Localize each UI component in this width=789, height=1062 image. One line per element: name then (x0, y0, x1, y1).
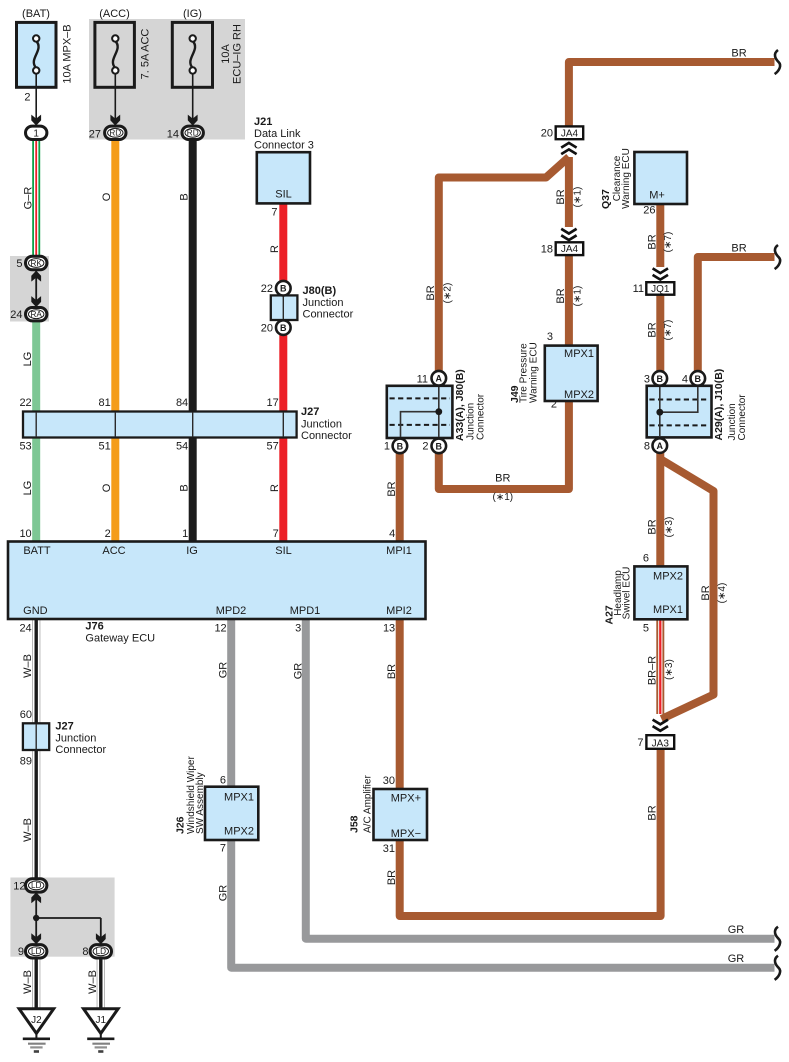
svg-text:JA4: JA4 (561, 244, 579, 255)
svg-text:B: B (657, 374, 664, 384)
svg-text:BR: BR (646, 322, 658, 337)
svg-text:26: 26 (643, 205, 655, 217)
svg-text:SW Assembly: SW Assembly (195, 772, 206, 834)
svg-text:LG: LG (22, 481, 34, 496)
svg-text:MPX−: MPX− (391, 828, 421, 840)
svg-text:24: 24 (10, 309, 22, 321)
svg-text:B: B (397, 441, 404, 451)
svg-text:12: 12 (214, 623, 226, 635)
svg-text:7: 7 (637, 737, 643, 749)
svg-text:BR: BR (646, 805, 658, 820)
svg-text:MPI1: MPI1 (386, 545, 412, 557)
svg-text:5: 5 (643, 623, 649, 635)
svg-text:BR: BR (425, 285, 437, 300)
svg-text:IG: IG (186, 545, 198, 557)
svg-text:W–B: W–B (22, 818, 34, 842)
svg-text:MPX1: MPX1 (224, 792, 254, 804)
svg-text:Connector: Connector (737, 394, 748, 441)
svg-text:Junction: Junction (55, 733, 96, 745)
svg-text:MPX2: MPX2 (224, 826, 254, 838)
svg-text:(∗4): (∗4) (717, 583, 728, 604)
svg-text:BR: BR (646, 519, 658, 534)
svg-text:57: 57 (267, 441, 279, 453)
svg-text:(∗2): (∗2) (443, 283, 454, 304)
svg-text:J58: J58 (349, 815, 361, 833)
svg-text:BR: BR (731, 243, 746, 255)
svg-text:3: 3 (644, 374, 650, 386)
svg-text:J80(B): J80(B) (303, 285, 337, 297)
svg-text:GND: GND (23, 605, 48, 617)
svg-text:GR: GR (218, 885, 230, 902)
svg-text:30: 30 (383, 775, 395, 787)
svg-text:BR: BR (646, 234, 658, 249)
svg-text:A: A (436, 374, 443, 384)
svg-text:BR: BR (700, 585, 712, 600)
svg-text:BR: BR (555, 288, 567, 303)
svg-text:11: 11 (417, 374, 428, 386)
svg-text:ECU–IG RH: ECU–IG RH (232, 24, 244, 84)
svg-text:9: 9 (18, 946, 24, 958)
svg-text:J27: J27 (301, 406, 319, 418)
svg-text:Gateway ECU: Gateway ECU (85, 633, 155, 645)
svg-text:GR: GR (728, 953, 745, 965)
svg-text:A33(A), J80(B): A33(A), J80(B) (454, 369, 466, 441)
svg-text:MPX1: MPX1 (564, 348, 594, 360)
svg-text:31: 31 (383, 843, 395, 855)
svg-text:A29(A), J10(B): A29(A), J10(B) (713, 369, 725, 441)
svg-text:7: 7 (220, 843, 226, 855)
svg-text:54: 54 (176, 441, 188, 453)
svg-text:R: R (269, 245, 281, 253)
svg-text:Warning ECU: Warning ECU (621, 148, 632, 209)
svg-text:22: 22 (19, 397, 31, 409)
svg-text:BR: BR (495, 473, 510, 485)
svg-text:2: 2 (551, 399, 557, 411)
svg-text:W–B: W–B (22, 654, 34, 678)
svg-text:J27: J27 (55, 721, 73, 733)
svg-text:3: 3 (295, 623, 301, 635)
svg-text:RD: RD (109, 129, 121, 138)
svg-text:(IG): (IG) (183, 8, 202, 20)
svg-text:A: A (657, 441, 664, 451)
svg-text:MPX+: MPX+ (391, 793, 421, 805)
svg-text:20: 20 (541, 128, 553, 140)
svg-text:53: 53 (19, 441, 31, 453)
svg-text:J21: J21 (254, 116, 272, 128)
svg-text:(∗1): (∗1) (573, 286, 584, 307)
svg-text:(∗7): (∗7) (663, 232, 674, 253)
svg-text:51: 51 (99, 441, 111, 453)
svg-text:MPX1: MPX1 (653, 604, 683, 616)
svg-text:1: 1 (384, 441, 390, 453)
svg-text:6: 6 (643, 553, 649, 565)
svg-text:2: 2 (105, 528, 111, 540)
svg-text:14: 14 (167, 128, 179, 140)
svg-text:Connector: Connector (301, 430, 352, 442)
svg-text:BR: BR (731, 48, 746, 60)
svg-text:Junction: Junction (303, 297, 344, 309)
svg-text:J2: J2 (31, 1015, 42, 1026)
svg-text:BATT: BATT (23, 545, 51, 557)
svg-text:7: 7 (273, 528, 279, 540)
svg-text:JQ1: JQ1 (651, 284, 670, 295)
svg-text:4: 4 (682, 374, 688, 386)
svg-text:RA: RA (31, 310, 43, 319)
svg-text:2: 2 (422, 441, 428, 453)
svg-text:10A MPX–B: 10A MPX–B (62, 24, 74, 83)
svg-text:J76: J76 (85, 621, 103, 633)
svg-text:(∗3): (∗3) (664, 659, 675, 680)
svg-text:GR: GR (292, 663, 304, 680)
svg-text:(∗7): (∗7) (663, 320, 674, 341)
svg-text:MPI2: MPI2 (386, 605, 412, 617)
svg-text:O: O (101, 483, 113, 492)
svg-text:LG: LG (22, 352, 34, 367)
svg-text:M+: M+ (649, 190, 665, 202)
svg-text:MPX2: MPX2 (653, 571, 683, 583)
svg-text:GR: GR (218, 662, 230, 679)
svg-text:8: 8 (82, 946, 88, 958)
svg-text:RK: RK (31, 259, 43, 268)
svg-text:10: 10 (19, 528, 31, 540)
svg-text:BR: BR (386, 870, 398, 885)
svg-text:12: 12 (13, 880, 25, 892)
svg-text:B: B (280, 323, 287, 333)
svg-text:17: 17 (267, 397, 279, 409)
svg-text:27: 27 (89, 128, 101, 140)
svg-text:G–R: G–R (23, 187, 35, 210)
svg-text:Connector: Connector (303, 309, 354, 321)
svg-text:18: 18 (541, 244, 553, 256)
svg-text:O: O (101, 192, 113, 201)
svg-text:Swivel ECU: Swivel ECU (622, 567, 633, 620)
svg-text:MPD1: MPD1 (290, 605, 321, 617)
svg-text:13: 13 (383, 623, 395, 635)
svg-text:60: 60 (20, 709, 32, 721)
svg-text:Q37: Q37 (600, 189, 612, 209)
svg-text:B: B (179, 484, 191, 491)
svg-text:1: 1 (182, 528, 188, 540)
svg-text:10A: 10A (220, 44, 232, 64)
svg-text:22: 22 (261, 283, 273, 295)
svg-text:LD: LD (31, 881, 42, 890)
svg-text:W–B: W–B (87, 970, 99, 994)
svg-text:BR: BR (386, 481, 398, 496)
svg-text:LD: LD (31, 947, 42, 956)
svg-text:(∗3): (∗3) (664, 517, 675, 538)
svg-text:ACC: ACC (102, 545, 125, 557)
svg-text:81: 81 (99, 397, 111, 409)
svg-text:5: 5 (16, 258, 22, 270)
svg-text:MPD2: MPD2 (216, 605, 247, 617)
svg-text:6: 6 (220, 775, 226, 787)
svg-text:24: 24 (19, 623, 31, 635)
svg-text:1: 1 (33, 128, 39, 139)
svg-text:BR–R: BR–R (646, 656, 658, 685)
svg-text:A/C Amplifier: A/C Amplifier (363, 775, 374, 833)
svg-text:B: B (280, 284, 287, 294)
svg-text:Connector 3: Connector 3 (254, 140, 314, 152)
svg-text:Junction: Junction (301, 419, 342, 431)
svg-text:JA4: JA4 (561, 128, 579, 139)
svg-text:GR: GR (728, 924, 745, 936)
svg-text:MPX2: MPX2 (564, 389, 594, 401)
svg-text:84: 84 (176, 397, 188, 409)
svg-text:Connector: Connector (476, 393, 487, 440)
svg-text:89: 89 (20, 756, 32, 768)
svg-text:R: R (269, 484, 281, 492)
svg-text:4: 4 (389, 528, 395, 540)
svg-text:JA3: JA3 (652, 738, 670, 749)
svg-text:(ACC): (ACC) (99, 8, 130, 20)
svg-text:B: B (695, 374, 702, 384)
svg-text:7: 7 (271, 207, 277, 219)
svg-text:(∗1): (∗1) (492, 492, 513, 503)
svg-text:BR: BR (555, 189, 567, 204)
svg-text:B: B (179, 193, 191, 200)
svg-text:11: 11 (633, 283, 644, 295)
svg-text:Warning ECU: Warning ECU (529, 342, 540, 403)
svg-text:J1: J1 (96, 1015, 107, 1026)
svg-text:7. 5A ACC: 7. 5A ACC (140, 29, 152, 80)
svg-text:20: 20 (261, 322, 273, 334)
svg-text:LD: LD (96, 947, 107, 956)
svg-text:SIL: SIL (275, 189, 292, 201)
svg-text:RD: RD (187, 129, 199, 138)
svg-text:Connector: Connector (55, 744, 106, 756)
svg-text:3: 3 (547, 331, 553, 343)
svg-text:(∗1): (∗1) (573, 187, 584, 208)
svg-text:J26: J26 (175, 816, 187, 834)
svg-text:8: 8 (644, 440, 650, 452)
svg-text:Data Link: Data Link (254, 128, 301, 140)
svg-text:B: B (436, 441, 443, 451)
svg-text:W–B: W–B (22, 970, 34, 994)
svg-text:BR: BR (386, 664, 398, 679)
svg-text:(BAT): (BAT) (22, 8, 50, 20)
svg-text:2: 2 (24, 92, 30, 104)
svg-text:SIL: SIL (275, 545, 292, 557)
